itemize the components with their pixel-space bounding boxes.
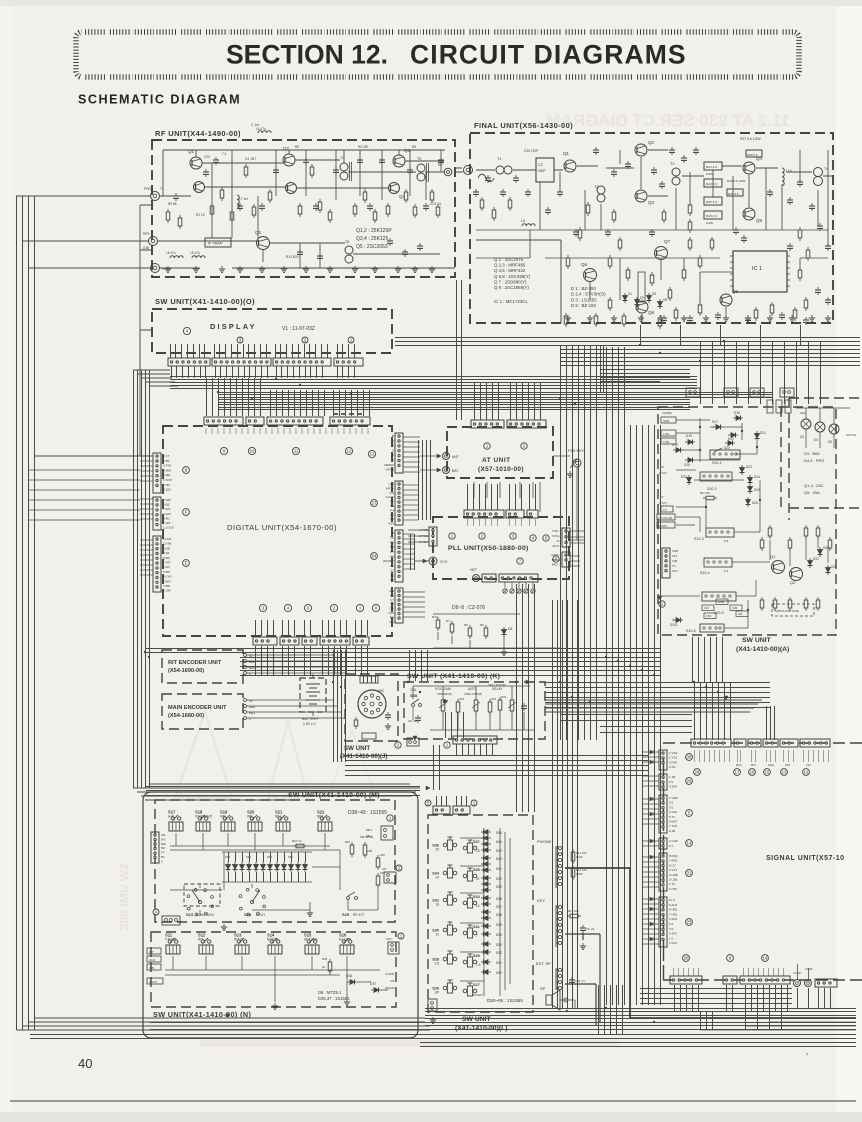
- diodes D1-D5 final: [623, 292, 668, 309]
- mid link AT-PLL: [474, 482, 540, 512]
- PLL right stubs: [570, 531, 584, 566]
- svg-text:P7: P7: [390, 550, 394, 554]
- push switch S31: [463, 931, 467, 935]
- push switch S36: [443, 843, 447, 847]
- coil L5 47u: [192, 256, 205, 258]
- svg-text:12: 12: [804, 770, 809, 775]
- svg-text:1/2W: 1/2W: [576, 855, 583, 859]
- svg-text:P5: P5: [390, 517, 394, 521]
- svg-text:R30: R30: [380, 853, 385, 857]
- svg-text:1 OM: 1 OM: [163, 589, 171, 593]
- svg-text:(X54-1690-00): (X54-1690-00): [168, 668, 204, 674]
- svg-text:MKS 3: MKS 3: [552, 563, 562, 567]
- RF misc components row 1: [166, 164, 440, 229]
- svg-text:14: 14: [687, 841, 692, 846]
- svg-text:(X41-1410-00)(J): (X41-1410-00)(J): [340, 753, 387, 760]
- svg-text:NB LEVEL: NB LEVEL: [360, 835, 374, 839]
- bleed-through triangle 3: [330, 730, 374, 792]
- signal top strip 2: [734, 739, 746, 747]
- A left tag NFT: [657, 522, 675, 528]
- FINAL unit box X56-1430-00: [470, 133, 833, 323]
- MAIN encoder unit box X54-1680-00: [162, 694, 243, 729]
- svg-text:7 THF: 7 THF: [669, 824, 677, 828]
- svg-text:D56: D56: [496, 913, 502, 917]
- transformer T5: [417, 164, 425, 172]
- switch S18 VFO/MEMO: [198, 817, 201, 820]
- svg-text:29: 29: [435, 848, 439, 852]
- M circled 1: [387, 815, 393, 821]
- A diode D35: [818, 550, 823, 555]
- bottom rule line: [10, 1100, 856, 1102]
- svg-text:T6: T6: [345, 240, 349, 244]
- svg-text:VCOF: VCOF: [805, 967, 813, 971]
- svg-text:Q 9 : 2SC1959(Y): Q 9 : 2SC1959(Y): [494, 285, 529, 290]
- svg-text:FINAL UNIT(X56-1430-00): FINAL UNIT(X56-1430-00): [474, 121, 573, 130]
- AT top risers: [475, 382, 541, 420]
- svg-text:R29: R29: [345, 840, 350, 844]
- svg-text:NB1: NB1: [275, 815, 281, 819]
- svg-text:L4 47u: L4 47u: [256, 127, 266, 131]
- svg-text:R5: R5: [295, 145, 299, 149]
- digital left pins E labels: [163, 537, 173, 593]
- svg-text:IF TRAP: IF TRAP: [208, 242, 223, 246]
- switch S19 MIN: [223, 817, 226, 820]
- svg-text:1 VS2: 1 VS2: [669, 751, 678, 755]
- svg-text:D58: D58: [496, 897, 502, 901]
- push switch S30: [443, 928, 447, 932]
- digital right connector strip 4: [395, 588, 403, 623]
- diode D25: [748, 487, 753, 492]
- svg-text:A: A: [155, 910, 158, 915]
- wire bus upper right C2 short: [600, 382, 660, 386]
- svg-text:1/2W: 1/2W: [706, 172, 713, 176]
- svg-text:D47: D47: [288, 855, 293, 859]
- svg-text:VF1: VF1: [672, 554, 678, 558]
- svg-text:C6 .01: C6 .01: [408, 719, 417, 723]
- svg-text:30: 30: [687, 755, 692, 760]
- svg-text:SW UNIT(X41-1410-00) (M): SW UNIT(X41-1410-00) (M): [288, 792, 380, 799]
- PLL circled 1: [449, 533, 455, 539]
- A circled 2: [659, 601, 665, 607]
- diode D20: [728, 441, 733, 446]
- LED D3: [801, 419, 811, 429]
- resistor R11 100 1/2W: [571, 852, 575, 861]
- svg-text:D55: D55: [496, 923, 502, 927]
- svg-text:SECTION 12.: SECTION 12.: [226, 40, 388, 70]
- resistor R10 31.2W: [436, 620, 440, 628]
- svg-text:S4: S4: [390, 578, 394, 582]
- bleed-through triangle 2: [268, 722, 308, 798]
- A left tag TUN: [661, 430, 676, 436]
- svg-text:SCHEMATIC DIAGRAM: SCHEMATIC DIAGRAM: [78, 93, 241, 107]
- signal left entry stubs: [642, 752, 659, 944]
- svg-text:R10: R10: [432, 615, 438, 619]
- signal left strip 25: [659, 897, 667, 947]
- svg-text:P5: P5: [390, 540, 394, 544]
- svg-text:TV: TV: [663, 508, 667, 512]
- M ground symbols: [223, 924, 225, 927]
- svg-text:R9: R9: [480, 623, 484, 627]
- svg-text:ME1: ME1: [249, 711, 256, 715]
- svg-text:5 TV: 5 TV: [669, 815, 675, 819]
- svg-text:MCK: MCK: [736, 763, 742, 767]
- svg-text:PLL UNIT(X50-1880-00): PLL UNIT(X50-1880-00): [448, 545, 529, 552]
- L circled 1b: [471, 800, 477, 806]
- svg-text:Q3: Q3: [648, 200, 655, 205]
- svg-text:LINE: LINE: [768, 763, 774, 767]
- svg-text:RIT ENCODER UNIT: RIT ENCODER UNIT: [168, 660, 222, 666]
- AT circled 2: [521, 443, 527, 449]
- PLL right connector 2: [562, 552, 570, 567]
- wire bus I under encoders: [146, 787, 420, 796]
- bottom page edge shade: [0, 1112, 862, 1122]
- capacitor C6 .01 in K: [415, 717, 421, 719]
- svg-text:MIC: MIC: [378, 689, 385, 693]
- coil L7 1m: [237, 195, 239, 208]
- svg-text:D5: D5: [663, 298, 667, 302]
- bleed-through smudge bottom: [200, 1040, 620, 1047]
- digital right labels 3: [383, 531, 394, 582]
- svg-text:V1 : 11-97-03Z: V1 : 11-97-03Z: [282, 326, 315, 332]
- svg-text:D41: D41: [246, 855, 251, 859]
- digital bottom connector strip 4: [320, 637, 350, 645]
- ext sp bold wire: [565, 984, 596, 1026]
- svg-text:FRO: FRO: [144, 187, 152, 191]
- push switch S34: [443, 871, 447, 875]
- svg-text:1 VSR: 1 VSR: [669, 796, 679, 800]
- svg-text:P1: P1: [390, 513, 394, 517]
- svg-text:40: 40: [78, 1056, 92, 1071]
- svg-text:S10-3: S10-3: [694, 537, 704, 541]
- svg-text:5 ME: 5 ME: [163, 473, 170, 477]
- signal top strip 5: [780, 739, 798, 747]
- A left connector strip: [662, 548, 670, 578]
- svg-text:WV: WV: [161, 837, 166, 841]
- PLL circled 6: [553, 556, 559, 562]
- svg-text:E: E: [185, 561, 188, 566]
- right bottom risers to signal: [599, 985, 623, 1034]
- rotary switch S23 FUNCTION: [184, 884, 220, 906]
- svg-text:P10: P10: [388, 522, 394, 526]
- N inner wires: [165, 956, 388, 1002]
- header hatch gap overlay: [82, 32, 793, 77]
- svg-text:D20: D20: [724, 446, 730, 450]
- svg-text:D18: D18: [734, 411, 740, 415]
- svg-text:ANTI: ANTI: [468, 687, 476, 691]
- digital bottom circled 8: [372, 604, 379, 611]
- digital right connector strip 3: [395, 530, 403, 582]
- svg-text:2 VS1: 2 VS1: [669, 756, 678, 760]
- transistor Q8 final: [636, 301, 648, 313]
- svg-text:Q1: Q1: [563, 151, 570, 156]
- svg-text:(TCT): (TCT): [659, 501, 667, 505]
- coil L16: [782, 168, 784, 186]
- resistor R13 220: [570, 914, 578, 918]
- key ground: [582, 943, 584, 946]
- svg-text:D2: D2: [640, 296, 644, 300]
- signal bottom drops: [675, 985, 788, 1012]
- wire bus horizontal B: [218, 393, 772, 398]
- signal circled 14: [686, 840, 693, 847]
- svg-text:1 NTF: 1 NTF: [669, 887, 678, 891]
- svg-text:R24 3.9: R24 3.9: [706, 182, 717, 186]
- signal top labels vertical hints: [736, 763, 811, 767]
- L ground: [432, 1017, 434, 1020]
- transformer T1 final: [496, 166, 504, 174]
- K wires: [413, 686, 535, 730]
- svg-text:C13 .01: C13 .01: [430, 202, 441, 206]
- digital bottom circled 4: [284, 604, 291, 611]
- arrow marks on buses: [226, 596, 728, 1017]
- PLL left connector FCB FCO FCV: [429, 527, 437, 546]
- K circled 2: [395, 742, 401, 748]
- svg-text:1.5: 1.5: [476, 963, 481, 967]
- svg-text:R32: R32: [459, 697, 465, 701]
- svg-text:Q3,4 : 25K125: Q3,4 : 25K125: [356, 236, 388, 242]
- svg-text:S2: S2: [390, 569, 394, 573]
- svg-text:D36,37 : 1S1555: D36,37 : 1S1555: [318, 996, 350, 1001]
- final misc resistors: [480, 197, 810, 329]
- signal bottom strip 9: [723, 976, 737, 984]
- wire bus digital bottom S: [410, 650, 428, 681]
- SW K trunk to signal: [545, 700, 762, 712]
- far left stubs to digital: [28, 470, 140, 520]
- svg-text:S10-4: S10-4: [700, 571, 710, 575]
- wire bus under digital D: [145, 649, 660, 653]
- svg-text:RE2: RE2: [249, 660, 255, 664]
- wire bus J: [345, 756, 648, 776]
- svg-text:R25 3.9: R25 3.9: [706, 200, 717, 204]
- digital top connector strip 4: [330, 417, 370, 425]
- svg-text:RF ATT: RF ATT: [353, 913, 364, 917]
- display circled 2: [302, 337, 308, 343]
- svg-text:AM: AM: [161, 833, 166, 837]
- digital right labels 4: [388, 589, 394, 624]
- svg-text:RF9: RF9: [143, 232, 150, 236]
- signal left labels 25: [669, 898, 678, 945]
- svg-text:R8: R8: [464, 623, 468, 627]
- diode D26: [746, 500, 751, 505]
- svg-text:26: 26: [695, 770, 700, 775]
- PLL bottom strip 2: [499, 574, 538, 582]
- svg-text:VFOA: VFOA: [386, 486, 395, 490]
- svg-text:D3: D3: [652, 292, 656, 296]
- svg-text:R13 R20: R13 R20: [286, 255, 299, 259]
- svg-text:P4: P4: [390, 508, 394, 512]
- svg-text:5 VT1: 5 VT1: [669, 868, 677, 872]
- final parts list 1: [494, 257, 531, 304]
- svg-text:F: F: [185, 510, 188, 515]
- svg-text:3 LSB: 3 LSB: [669, 878, 677, 882]
- signal bottom labels 14b: [744, 968, 784, 976]
- svg-text:D-LOCK: D-LOCK: [339, 938, 352, 942]
- transistor Q2 final: [635, 144, 647, 156]
- svg-text:SSB: SSB: [663, 419, 669, 423]
- signal bottom strip 20: [670, 976, 702, 984]
- svg-text:1/2W: 1/2W: [576, 872, 583, 876]
- svg-text:AT1: AT1: [382, 867, 387, 871]
- svg-text:D38: D38: [225, 855, 230, 859]
- svg-text:CLR: CLR: [149, 958, 156, 962]
- resistor R27 47: [296, 844, 304, 848]
- svg-text:VCOP: VCOP: [793, 971, 801, 975]
- svg-text:12 M1: 12 M1: [163, 537, 172, 541]
- svg-text:D53: D53: [496, 943, 502, 947]
- MIC connector circle: [358, 690, 386, 718]
- M left connector strip: [151, 832, 159, 863]
- svg-text:6 B3: 6 B3: [163, 503, 170, 507]
- svg-text:R26 3.9: R26 3.9: [706, 214, 717, 218]
- svg-text:ME2: ME2: [249, 705, 256, 709]
- svg-text:D4,5 : PRS: D4,5 : PRS: [804, 458, 824, 463]
- svg-text:13: 13: [370, 452, 375, 457]
- diode row labels: [225, 855, 293, 859]
- AT unit top strip 2: [507, 420, 546, 428]
- signal bottom strip right: [815, 979, 837, 987]
- svg-text:J2B: J2B: [149, 966, 154, 970]
- SIGNAL unit box bottom edge: [663, 979, 862, 981]
- svg-text:4 0: 4 0: [669, 927, 674, 931]
- K left bottom connector: [407, 738, 419, 746]
- resistor R5 1.5K: [706, 496, 714, 500]
- svg-text:R29 5.6 1/2W: R29 5.6 1/2W: [727, 179, 746, 183]
- svg-text:13: 13: [435, 933, 439, 937]
- svg-text:S1: S1: [390, 564, 394, 568]
- wire bus right of SW-K down: [434, 745, 440, 790]
- svg-text:MKS 2: MKS 2: [552, 558, 562, 562]
- wires below FINAL left corner: [457, 280, 462, 420]
- slide switch S10-5: [702, 592, 736, 601]
- svg-text:D16: D16: [684, 463, 690, 467]
- svg-text:7: 7: [476, 934, 478, 938]
- svg-text:Q4: Q4: [756, 156, 763, 161]
- VCOP riser: [797, 964, 799, 979]
- svg-text:SW UNIT: SW UNIT: [462, 1016, 492, 1023]
- SW unit K box: [404, 682, 545, 739]
- L top strip risers: [437, 796, 467, 806]
- capacitor C6 key: [580, 927, 586, 929]
- signal left strip 14: [659, 838, 667, 849]
- digital bottom circled 2: [330, 604, 337, 611]
- KEY wires: [565, 933, 600, 1022]
- signal VCOF connector: [805, 980, 812, 987]
- svg-text:D3: D3: [800, 435, 804, 439]
- svg-text:R6: R6: [412, 145, 416, 149]
- svg-text:T5: T5: [417, 157, 421, 161]
- svg-text:VDB: VDB: [672, 549, 678, 553]
- svg-text:29: 29: [687, 779, 692, 784]
- signal left labels 30: [669, 751, 678, 769]
- diode D24: [748, 478, 753, 483]
- AT BAT connector: [443, 467, 450, 474]
- svg-text:D57: D57: [496, 905, 502, 909]
- digital left connector strip B: [153, 453, 161, 493]
- svg-text:C40 .01: C40 .01: [575, 979, 585, 983]
- NB connector right: [381, 826, 393, 840]
- svg-text:A+B: A+B: [168, 815, 174, 819]
- svg-text:3 FSK: 3 FSK: [163, 464, 173, 468]
- switch S22 NB2: [320, 817, 323, 820]
- svg-text:12: 12: [347, 449, 352, 454]
- svg-text:(X54-1680-00): (X54-1680-00): [168, 713, 204, 719]
- svg-text:D31: D31: [813, 557, 819, 561]
- M left pin labels: [161, 833, 166, 863]
- SW unit O display box X41-1410-00: [152, 309, 392, 353]
- svg-text:D101: D101: [670, 623, 678, 627]
- svg-text:AFS 4: AFS 4: [552, 544, 561, 548]
- svg-text:Q7: Q7: [664, 239, 671, 244]
- svg-text:S38: S38: [410, 693, 418, 698]
- diode D15: [688, 440, 693, 445]
- SW unit L box: [428, 815, 533, 1012]
- wire bus display to digital horizontal A: [170, 377, 697, 389]
- svg-text:6 SP2: 6 SP2: [669, 917, 678, 921]
- svg-text:21: 21: [476, 877, 480, 881]
- svg-text:Q3: Q3: [404, 148, 411, 153]
- svg-text:SW UNIT (X41-1410-00) (K): SW UNIT (X41-1410-00) (K): [407, 673, 500, 680]
- A resistors right: [760, 525, 832, 611]
- svg-text:7 RIT: 7 RIT: [163, 561, 171, 565]
- A left tag TV: [661, 506, 673, 512]
- svg-text:27: 27: [372, 501, 377, 506]
- RF ground symbols: [165, 266, 435, 272]
- svg-text:MIN: MIN: [220, 815, 227, 819]
- L top connector strip 2: [453, 806, 470, 814]
- front panel solid frame: [143, 792, 418, 1038]
- svg-text:TUR: TUR: [663, 440, 670, 444]
- digital bottom connector strip 1: [253, 637, 277, 645]
- RF wires mid rails: [157, 160, 455, 268]
- signal circled 20: [683, 955, 690, 962]
- coil L6 47u: [170, 256, 183, 258]
- svg-text:L6 47u: L6 47u: [166, 251, 176, 255]
- svg-text:S31: S31: [473, 925, 480, 929]
- signal top circled 15: [764, 769, 771, 776]
- svg-text:7 MS1: 7 MS1: [669, 859, 678, 863]
- switch S14 NOTCH: [270, 940, 273, 943]
- transistor Q2b: [286, 183, 297, 194]
- svg-text:D63: D63: [496, 857, 502, 861]
- svg-text:P2: P2: [390, 500, 394, 504]
- wire RF to FINAL: [455, 168, 463, 172]
- svg-text:2 0: 2 0: [669, 936, 674, 940]
- PLL circled 3: [510, 533, 516, 539]
- PLL unit box X50-1880-00: [433, 517, 569, 579]
- svg-text:R28: R28: [322, 957, 328, 961]
- svg-text:J30 (CRL)(B): J30 (CRL)(B): [658, 517, 672, 520]
- mode small tags: [702, 599, 748, 619]
- coil L5 final: [522, 224, 535, 226]
- PLL top strip 1: [464, 510, 504, 518]
- wire bus upper right C lower: [560, 350, 860, 366]
- wire bus horizontal B short: [218, 400, 690, 410]
- digital right labels 1: [384, 434, 394, 472]
- pll lower wires: [433, 614, 560, 648]
- svg-text:D 3 : 1S1555: D 3 : 1S1555: [571, 297, 597, 302]
- svg-text:RIT: RIT: [149, 950, 154, 954]
- svg-text:LOCK: LOCK: [149, 980, 157, 984]
- PLL right labels 1: [552, 529, 561, 548]
- svg-text:(X57-1010-00): (X57-1010-00): [478, 466, 524, 473]
- bottom channel G3: [420, 1043, 856, 1047]
- RIT encoder pins: [244, 654, 346, 677]
- diode column labels: [496, 831, 502, 937]
- svg-text:D9 : MTZ9.1: D9 : MTZ9.1: [318, 990, 342, 995]
- switch S20 WR: [250, 817, 253, 820]
- L top connector strip E: [433, 806, 450, 814]
- SIGNAL unit box left edge: [663, 757, 665, 980]
- wires left of digital into strips: [140, 456, 153, 575]
